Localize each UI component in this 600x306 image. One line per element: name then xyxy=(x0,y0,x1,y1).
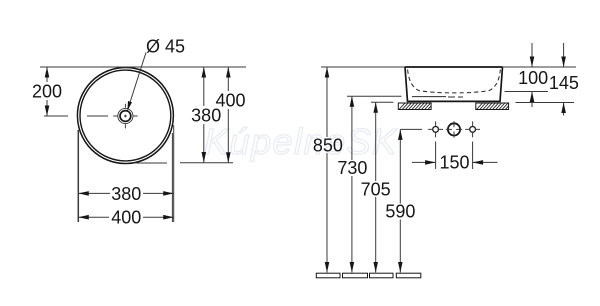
basin bottom interior solid line xyxy=(412,96,446,98)
svg-text:Ø 45: Ø 45 xyxy=(146,37,185,57)
svg-text:400: 400 xyxy=(215,90,245,110)
basin outer circle xyxy=(77,68,173,164)
inner depth extension line (100) xyxy=(505,91,549,93)
svg-text:150: 150 xyxy=(439,153,469,173)
basin bottom extension line (145) xyxy=(516,102,575,104)
bottom extension line right part xyxy=(180,162,233,164)
svg-text:590: 590 xyxy=(385,202,415,222)
dimension 850 arrows xyxy=(325,67,330,273)
drain hole outer circle xyxy=(118,108,133,123)
dimension 850 line xyxy=(326,67,328,273)
svg-text:850: 850 xyxy=(313,135,343,155)
svg-text:380: 380 xyxy=(111,184,141,204)
svg-text:200: 200 xyxy=(32,82,62,102)
floor line segment 3 xyxy=(370,273,394,278)
basin inner circle xyxy=(80,70,171,161)
reference line 705 xyxy=(371,101,394,103)
left small hole ticks xyxy=(428,121,443,137)
bottom tangent extension line left part xyxy=(134,162,168,164)
middle hole ticks xyxy=(446,121,462,137)
dimension 400 horizontal line xyxy=(78,216,173,218)
right vertical extension lines xyxy=(172,125,173,222)
dimension 400 vertical arrows xyxy=(226,67,231,163)
basin body outline xyxy=(405,67,503,101)
top extension line right of basin xyxy=(503,66,577,68)
dimension 705 line xyxy=(375,102,377,272)
reference line 730 xyxy=(347,95,402,97)
basin inner bowl dashed profile xyxy=(408,70,501,93)
svg-text:705: 705 xyxy=(361,179,391,199)
drain crosshair ticks xyxy=(113,104,137,129)
floor line segment 4 xyxy=(396,273,421,278)
dimension 200 line xyxy=(46,67,48,116)
dimension 150 arrows xyxy=(425,160,483,165)
dimension 100 arrows xyxy=(530,57,535,103)
dimension 380 horizontal arrows xyxy=(78,191,173,196)
diameter 45 leader arrowhead xyxy=(127,101,132,111)
dimension 145 line xyxy=(563,43,565,116)
drain hole inner circle xyxy=(120,111,131,122)
floor line segment 1 xyxy=(316,273,340,278)
right mounting pad (hatched) xyxy=(476,103,509,110)
diameter 45 leader line xyxy=(130,53,146,104)
dimension 150 extension lines xyxy=(436,142,473,170)
svg-text:730: 730 xyxy=(337,158,367,178)
svg-text:145: 145 xyxy=(549,73,579,93)
left small hole circle xyxy=(433,126,439,132)
middle hole circle xyxy=(448,123,460,135)
dimension 100 line xyxy=(531,43,533,107)
svg-text:100: 100 xyxy=(518,68,548,88)
dimension 400 vertical line xyxy=(227,67,229,163)
dimension 705 arrows xyxy=(373,102,378,272)
top extension line xyxy=(40,66,246,68)
svg-text:KúpelneSK: KúpelneSK xyxy=(204,121,398,162)
left vertical extension line xyxy=(77,130,79,222)
dimension 380 horizontal line xyxy=(78,192,173,194)
svg-text:400: 400 xyxy=(111,208,141,228)
dimension 730 arrows xyxy=(350,96,355,272)
dimension 200 arrows xyxy=(45,67,50,116)
dimension 150 line tails xyxy=(412,161,498,163)
horizontal center line dashes xyxy=(44,115,108,117)
dimension 730 line xyxy=(351,96,353,272)
left mounting pad (hatched) xyxy=(398,103,431,110)
dimension 380 vertical line xyxy=(203,67,205,163)
right small hole circle xyxy=(470,126,476,132)
faucet holes center line xyxy=(400,128,422,130)
dimension 145 arrows xyxy=(561,57,566,114)
right small hole ticks xyxy=(465,121,480,137)
dimension 400 horizontal arrows xyxy=(78,215,173,220)
floor line segment 2 xyxy=(343,273,368,278)
basin bottom interior dashes xyxy=(448,96,463,98)
top extension line left of basin xyxy=(321,66,405,68)
dimension 590 line xyxy=(399,129,401,272)
dimension 380 vertical arrows xyxy=(202,67,207,163)
dimension 590 arrows xyxy=(398,129,403,272)
